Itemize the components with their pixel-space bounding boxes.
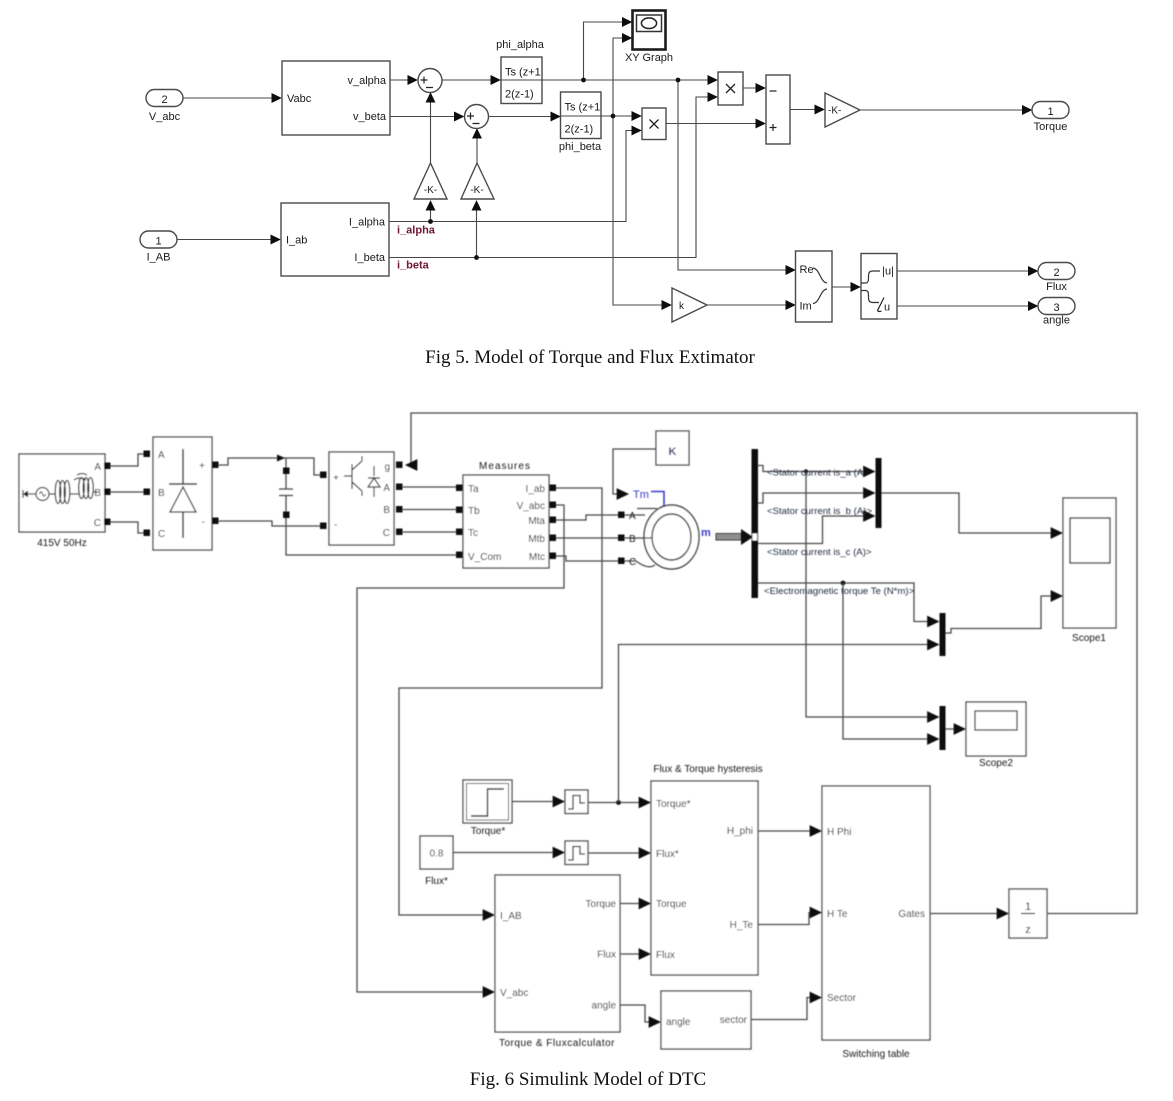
svg-text:B: B [629, 534, 636, 545]
svg-text:Measures: Measures [479, 461, 531, 472]
svg-text:V_abc: V_abc [500, 988, 528, 999]
svg-text:415V 50Hz: 415V 50Hz [37, 538, 86, 549]
svg-text:2: 2 [1053, 267, 1059, 279]
svg-text:I_AB: I_AB [500, 911, 522, 922]
svg-text:m: m [701, 527, 711, 539]
svg-text:Flux & Torque hysteresis: Flux & Torque hysteresis [653, 764, 762, 775]
svg-text:angle: angle [666, 1017, 691, 1028]
svg-text:C: C [383, 528, 390, 539]
svg-text:|u|: |u| [882, 266, 894, 278]
svg-text:+: + [199, 461, 205, 472]
svg-text:<Stator current is_a (A: <Stator current is_a (A [767, 468, 864, 479]
svg-text:Flux: Flux [656, 950, 675, 961]
svg-text:Torque: Torque [585, 899, 616, 910]
svg-text:phi_alpha: phi_alpha [496, 39, 545, 51]
svg-text:Flux*: Flux* [425, 876, 448, 887]
svg-text:-: - [334, 520, 337, 531]
svg-text:Tb: Tb [468, 506, 480, 517]
svg-text:V_Com: V_Com [468, 552, 501, 563]
svg-text:phi_beta: phi_beta [559, 141, 602, 153]
svg-text:1: 1 [1047, 106, 1053, 118]
svg-text:A: A [158, 450, 165, 461]
svg-text:H Te: H Te [827, 909, 848, 920]
svg-text:2(z-1): 2(z-1) [565, 124, 594, 136]
svg-text:B: B [94, 488, 101, 499]
svg-text:Ta: Ta [468, 484, 479, 495]
svg-text:i_beta: i_beta [397, 260, 430, 272]
svg-text:Mta: Mta [528, 516, 545, 527]
svg-text:I_AB: I_AB [147, 252, 171, 264]
svg-text:Flux*: Flux* [656, 849, 679, 860]
svg-text:Torque & Fluxcalculator: Torque & Fluxcalculator [499, 1038, 615, 1049]
svg-text:-: - [202, 517, 205, 528]
svg-text:v_beta: v_beta [353, 111, 387, 123]
svg-text:V_abc: V_abc [149, 111, 181, 123]
svg-text:I_ab: I_ab [286, 235, 307, 247]
svg-text:z: z [1025, 924, 1031, 936]
svg-text:V_abc: V_abc [517, 501, 545, 512]
svg-text:Gates: Gates [898, 909, 925, 920]
svg-text:Scope2: Scope2 [979, 758, 1013, 769]
svg-text:Switching table: Switching table [842, 1049, 910, 1060]
svg-text:XY Graph: XY Graph [625, 52, 673, 64]
svg-text:Flux: Flux [597, 950, 616, 961]
svg-text:Tm: Tm [633, 489, 649, 501]
svg-text:Tc: Tc [468, 528, 478, 539]
svg-text:C: C [629, 557, 636, 568]
svg-text:v_alpha: v_alpha [347, 75, 386, 87]
svg-text:<Electromagnetic torque Te (N*: <Electromagnetic torque Te (N*m)> [764, 586, 915, 597]
svg-text:Torque*: Torque* [471, 826, 506, 837]
svg-text:angle: angle [1043, 315, 1070, 327]
svg-text:A: A [629, 511, 636, 522]
svg-text:2(z-1): 2(z-1) [505, 89, 534, 101]
svg-text:Torque: Torque [1034, 121, 1068, 133]
svg-text:Flux: Flux [1046, 281, 1067, 293]
svg-text:C: C [94, 518, 101, 529]
svg-text:H_Te: H_Te [730, 920, 754, 931]
svg-text:1: 1 [1025, 901, 1031, 913]
svg-text:B: B [158, 488, 165, 499]
svg-text:-K-: -K- [424, 185, 437, 196]
svg-text:<Stator current is_c (A)>: <Stator current is_c (A)> [767, 547, 872, 558]
svg-text:Mtc: Mtc [529, 552, 545, 563]
svg-text:H_phi: H_phi [727, 826, 753, 837]
svg-text:K: K [669, 446, 677, 458]
svg-text:-K-: -K- [470, 185, 483, 196]
svg-text:sector: sector [720, 1015, 748, 1026]
svg-text:Scope1: Scope1 [1072, 633, 1106, 644]
svg-text:Torque*: Torque* [656, 799, 691, 810]
svg-text:Im: Im [800, 301, 812, 313]
svg-text:Ts (z+1: Ts (z+1 [565, 102, 601, 114]
svg-text:+: + [333, 473, 339, 484]
svg-text:3: 3 [1053, 302, 1059, 314]
svg-text:g: g [384, 462, 390, 473]
svg-text:Mtb: Mtb [528, 534, 545, 545]
svg-text:C: C [158, 529, 165, 540]
svg-text:Re: Re [800, 264, 814, 276]
svg-text:-K-: -K- [828, 106, 841, 117]
svg-text:Fig 5. Model of Torque and Flu: Fig 5. Model of Torque and Flux Extimato… [425, 347, 755, 368]
svg-text:<Stator current is_b (A)>: <Stator current is_b (A)> [767, 506, 872, 517]
svg-text:Vabc: Vabc [287, 93, 312, 105]
svg-text:B: B [383, 505, 390, 516]
svg-text:Torque: Torque [656, 899, 687, 910]
svg-text:A: A [94, 462, 101, 473]
svg-text:angle: angle [592, 1001, 617, 1012]
svg-text:A: A [383, 483, 390, 494]
svg-text:I_beta: I_beta [354, 252, 385, 264]
svg-text:Fig. 6 Simulink Model of DTC: Fig. 6 Simulink Model of DTC [470, 1069, 706, 1090]
svg-text:2: 2 [161, 94, 167, 106]
svg-text:0.8: 0.8 [430, 849, 444, 860]
svg-text:I_alpha: I_alpha [349, 217, 386, 229]
svg-text:1: 1 [155, 236, 161, 248]
svg-text:Sector: Sector [827, 993, 857, 1004]
svg-text:u: u [884, 302, 890, 314]
svg-text:Ts (z+1: Ts (z+1 [505, 67, 541, 79]
svg-text:I_ab: I_ab [526, 484, 546, 495]
svg-text:i_alpha: i_alpha [397, 225, 436, 237]
svg-text:H Phi: H Phi [827, 827, 851, 838]
